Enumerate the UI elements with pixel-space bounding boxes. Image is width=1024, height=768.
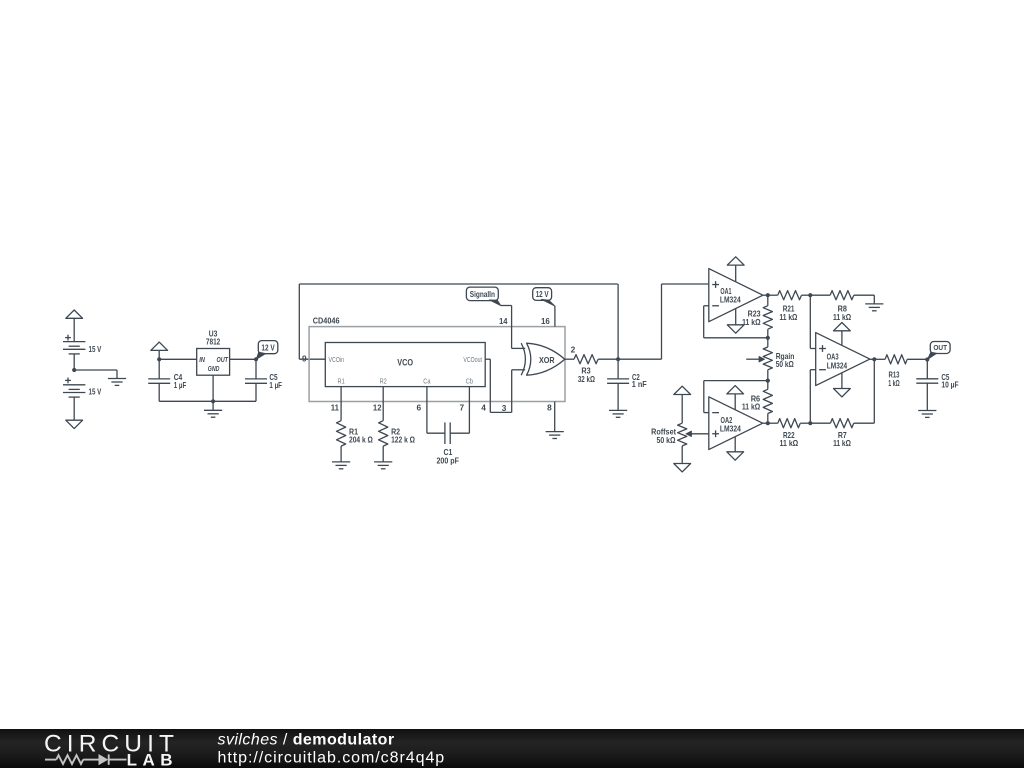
svg-text:11: 11: [331, 403, 340, 413]
svg-text:3: 3: [502, 403, 507, 413]
svg-text:VCOout: VCOout: [463, 357, 482, 364]
svg-text:http://circuitlab.com/c8r4q4p: http://circuitlab.com/c8r4q4p: [218, 750, 446, 767]
svg-text:204 k Ω: 204 k Ω: [349, 434, 373, 444]
svg-text:50 kΩ: 50 kΩ: [776, 359, 794, 369]
svg-text:4: 4: [481, 403, 486, 413]
svg-text:15 V: 15 V: [89, 344, 102, 354]
svg-text:200 pF: 200 pF: [436, 455, 459, 465]
svg-text:12: 12: [373, 403, 382, 413]
svg-text:10 µF: 10 µF: [941, 379, 958, 389]
svg-text:SignalIn: SignalIn: [470, 290, 495, 299]
svg-text:15 V: 15 V: [89, 386, 102, 396]
svg-text:8: 8: [547, 403, 552, 413]
svg-text:6: 6: [416, 403, 421, 413]
svg-text:LAB: LAB: [127, 750, 178, 768]
svg-text:9: 9: [302, 354, 307, 364]
svg-text:32 kΩ: 32 kΩ: [578, 374, 595, 384]
svg-text:CD4046: CD4046: [313, 316, 340, 326]
svg-text:7: 7: [459, 403, 464, 413]
svg-text:11 kΩ: 11 kΩ: [742, 317, 761, 327]
svg-text:12 V: 12 V: [261, 343, 275, 352]
svg-text:IN: IN: [199, 355, 205, 364]
svg-text:11 kΩ: 11 kΩ: [742, 401, 761, 411]
svg-text:VCOin: VCOin: [329, 357, 345, 364]
svg-text:122 k Ω: 122 k Ω: [391, 434, 415, 444]
svg-text:1 nF: 1 nF: [632, 379, 647, 389]
svg-text:GND: GND: [208, 364, 220, 373]
svg-text:R1: R1: [338, 379, 345, 386]
svg-text:OUT: OUT: [933, 343, 947, 352]
svg-text:R2: R2: [380, 379, 387, 386]
svg-text:11 kΩ: 11 kΩ: [779, 312, 797, 322]
svg-text:XOR: XOR: [539, 355, 555, 365]
svg-text:16: 16: [541, 316, 550, 326]
svg-text:LM324: LM324: [720, 295, 741, 305]
svg-text:14: 14: [499, 316, 508, 326]
svg-text:svilches / demodulator: svilches / demodulator: [218, 732, 395, 749]
svg-text:1 µF: 1 µF: [269, 380, 282, 390]
svg-text:50 kΩ: 50 kΩ: [657, 435, 676, 445]
svg-text:1 kΩ: 1 kΩ: [888, 378, 900, 388]
svg-text:12 V: 12 V: [536, 290, 549, 299]
svg-text:11 kΩ: 11 kΩ: [780, 438, 799, 448]
svg-text:11 kΩ: 11 kΩ: [833, 438, 851, 448]
svg-text:Ca: Ca: [423, 379, 430, 386]
svg-text:11 kΩ: 11 kΩ: [833, 312, 851, 322]
svg-text:7812: 7812: [206, 337, 221, 347]
svg-text:Cb: Cb: [466, 379, 473, 386]
svg-text:LM324: LM324: [827, 360, 848, 370]
svg-text:LM324: LM324: [720, 423, 741, 433]
svg-text:OUT: OUT: [217, 355, 229, 364]
svg-text:2: 2: [571, 345, 576, 355]
svg-text:1 µF: 1 µF: [174, 380, 187, 390]
svg-text:VCO: VCO: [397, 357, 413, 367]
